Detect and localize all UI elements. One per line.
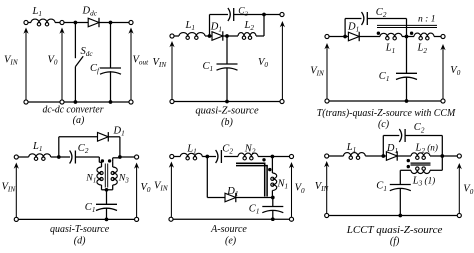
arrow V0 (panel f) [457,163,474,213]
junction: L2/C2 node [262,13,266,17]
polarity dot N3 [108,159,111,162]
arrow VIN (panel b) [153,41,175,99]
junction: L1/C2/D1 node (e) [205,155,209,159]
junction: C1 bottom node (e) [271,217,275,221]
winding L3 (panel f) [400,156,442,188]
diode D1 (panel b) [210,21,223,40]
terminal: output - [129,100,133,104]
arrow V0 (panel e) [289,162,305,217]
wire: C2 top branch (c) [345,19,406,37]
wire: bottom rail panel a [28,101,128,103]
inductor L1 (panel a) [31,6,55,26]
wire: output rail (d) [120,156,134,158]
transformer core (panel d) [105,164,107,188]
switch Sdc [75,23,93,103]
svg-text:dc-dc converter: dc-dc converter [43,104,105,116]
transformer core (panel e) [236,163,267,196]
capacitor C1 (panel e) [249,198,283,220]
caption panel a [43,104,105,127]
capacitor C1 (panel f) [376,170,411,215]
arrow V0 (panel b) [258,21,285,99]
transformer winding N3 (panel d) [107,158,130,190]
arrow VIN (panel d) [2,163,19,218]
inductor L2 (panel b) [238,20,256,39]
capacitor C2 (panel f) [399,122,425,142]
junction: Sdc top node [74,21,78,25]
wire: main rail panel f [329,155,458,157]
terminal: input + (f) [325,154,329,158]
polarity dot L2 [410,32,413,35]
svg-text:A-source: A-source [210,223,247,235]
wire: bottom rail panel b [174,101,279,103]
wire: bottom rail panel c [329,100,440,102]
terminal: input + (d) [14,155,18,159]
junction: winding common bottom [105,188,109,192]
junction: Cf bottom node [109,100,113,104]
diode D1 (panel c) [347,22,359,42]
winding N1 (panel e) [271,157,288,198]
polarity dot L3 (f) [407,165,410,168]
wire: main rail panel b [174,35,264,37]
svg-text:T(trans)-quasi-Z-source with C: T(trans)-quasi-Z-source with CCM [317,108,457,119]
winding N2 (panel e) [238,144,258,160]
arrow VIN (panel c) [310,43,329,99]
transformer core (panel c) [377,25,437,27]
capacitor C2 (panel c) [362,7,387,25]
arrow VIN (panel e) [154,162,174,217]
wire: bottom rail panel f [329,215,457,217]
wire: C2 top branch [210,15,280,37]
arrow Vout [128,28,149,100]
capacitor Cf [90,23,121,103]
polarity dot N1 [101,159,104,162]
diode Ddc [82,6,100,28]
svg-text:(b): (b) [221,117,233,128]
wire: C2 top branch (f) [383,136,442,157]
caption panel c [317,108,457,130]
junction: D1 cathode node [225,34,229,38]
diode D1 (panel f) [386,143,398,161]
svg-text:n : 1: n : 1 [418,14,436,24]
svg-text:(a): (a) [73,115,85,126]
terminal: input + [24,20,28,24]
terminal: output + (e) [289,154,293,158]
junction: N1/D1/C1 node [271,196,275,200]
inductor L1 (panel e) [180,144,202,160]
junction: D1 anode node [208,34,212,38]
junction: output node (f) [440,154,444,158]
terminal: input - [24,100,28,104]
inductor L1 (panel f) [344,142,366,159]
terminal: output + [129,20,133,24]
terminal: input - (f) [325,213,329,217]
caption panel e [210,223,247,247]
terminal: V0 bottom tap [60,100,64,104]
polarity dot L2 (f) [407,159,410,162]
caption panel b [195,105,258,129]
inductor L1 (panel b) [179,20,205,39]
junction: C1 bottom node (d) [105,218,109,222]
capacitor C2 (panel e) [216,144,234,164]
svg-text:(c): (c) [378,119,390,130]
terminal: input + (c) [325,34,329,38]
wire: main rail panel c [329,36,440,38]
arrow VIN (panel f) [315,161,330,213]
wire: main rail panel d [19,157,102,162]
capacitor C2 (panel d) [70,143,89,164]
wire: main rail panel e [174,156,289,158]
terminal: output - (b) [280,99,284,103]
junction: D1 cathode node (d) [118,155,122,159]
terminal: output + (b) [280,12,284,16]
terminal: output - (e) [289,217,293,221]
svg-text:(e): (e) [225,236,237,247]
inductor L2 secondary (panel c) [414,33,434,55]
terminal: output - (d) [135,217,139,221]
terminal: input + (e) [170,154,174,158]
terminal: output - (c) [441,99,445,103]
inductor L1 primary (panel c) [380,33,402,55]
caption panel d [50,223,109,247]
arrow VIN (panel a) [4,28,29,100]
svg-text:LCCT quasi-Z-source: LCCT quasi-Z-source [346,224,443,236]
junction: D1 anode node (f) [381,154,385,158]
junction: L1/L2 centre tap [405,35,409,39]
arrow V0 (panel a) [48,28,65,100]
terminal: input - (d) [14,217,18,221]
wire: top rail panel a [28,22,128,24]
junction: Sdc bottom node [74,100,78,104]
terminal: output - (f) [457,213,461,217]
terminal: output + (f) [457,154,461,158]
capacitor C1 (panel c) [379,37,417,102]
polarity dot N2 [262,158,265,161]
caption panel f [346,224,443,247]
svg-text:quasi-T-source: quasi-T-source [50,223,109,235]
diode D1 branch (panel d) [59,125,125,157]
junction: C1 bottom node [225,100,229,104]
polarity dot L1 [377,32,380,35]
diode D1 branch (panel e) [207,157,272,203]
junction: L1/C2/D1 node [57,155,61,159]
wire: bottom rail panel e [173,218,289,220]
transformer core (panel f) [411,163,431,165]
polarity dot N1 [268,168,271,171]
arrow V0 (panel d) [134,163,151,218]
inductor L1 (panel d) [29,141,51,160]
terminal: input - (b) [170,99,174,103]
junction: C1 bottom node (f) [398,214,402,218]
junction: D1 anode node (c) [343,35,347,39]
capacitor C1 (panel d) [85,190,117,220]
arrow V0 (panel c) [440,44,460,99]
junction: N2/N1 output node [271,155,275,159]
terminal: output + (c) [441,34,445,38]
capacitor C2 (panel b) [228,6,249,21]
winding L2 (panel f) [411,143,438,160]
terminal: input + (b) [170,34,174,38]
wire: bottom rail panel d [19,218,135,220]
terminal: input - (c) [325,99,329,103]
transformer winding N1 (panel d) [85,162,106,190]
junction: Cf top node [109,21,113,25]
svg-text:quasi-Z-source: quasi-Z-source [195,105,258,117]
capacitor C1 (panel b) [203,36,238,102]
terminal: output + (d) [135,155,139,159]
svg-text:(d): (d) [74,236,86,247]
svg-text:(f): (f) [390,236,400,247]
terminal: V0 top tap [60,20,64,24]
junction: C1 bottom node (c) [405,99,409,103]
terminal: input - (e) [169,217,173,221]
